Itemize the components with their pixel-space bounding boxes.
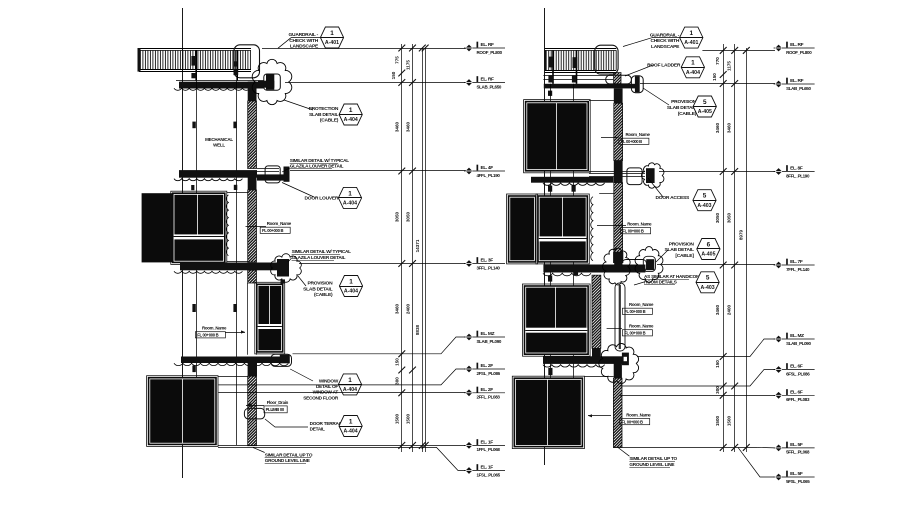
svg-text:WINDOW: WINDOW — [319, 379, 339, 384]
svg-text:1FSL_PL065: 1FSL_PL065 — [477, 472, 501, 477]
insulation scallop under S4 — [174, 363, 288, 365]
svg-text:PROVISION: PROVISION — [671, 99, 697, 105]
slab edge anchor detail in cloud — [264, 74, 281, 90]
slab S4 edge capsule — [271, 354, 292, 366]
svg-text:SLAB_PL650: SLAB_PL650 — [477, 84, 502, 89]
svg-text:Room_Name: Room_Name — [627, 221, 652, 226]
svg-text:▌ EL. 1F: ▌ EL. 1F — [477, 464, 494, 471]
level marker left y82 — [464, 82, 505, 84]
svg-text:A-405: A-405 — [698, 109, 712, 115]
svg-text:FL 00+000 B: FL 00+000 B — [622, 229, 643, 234]
svg-text:A-404: A-404 — [344, 117, 358, 123]
level line roof slab (left) — [285, 82, 466, 84]
svg-text:A-405: A-405 — [701, 252, 715, 258]
svg-text:DETAIL: DETAIL — [310, 427, 325, 432]
svg-text:3460: 3460 — [715, 304, 720, 315]
svg-text:PLUMB 00: PLUMB 00 — [266, 407, 285, 412]
mullion centerline 1 (right) — [550, 84, 552, 447]
svg-text:1500: 1500 — [715, 415, 720, 426]
wall black floor3 bottom (right) — [592, 348, 601, 356]
roof guardrail (left) — [139, 48, 251, 50]
slab S3 edge end block — [277, 259, 289, 277]
svg-text:3FFL_PL140: 3FFL_PL140 — [477, 265, 501, 270]
svg-text:ROOF_PL800: ROOF_PL800 — [477, 50, 503, 55]
svg-text:[CABLE]: [CABLE] — [675, 253, 694, 259]
hexagon callout 1 A-401 (left roof) — [320, 27, 343, 48]
svg-text:150: 150 — [715, 360, 720, 368]
revision cloud S4R — [599, 343, 639, 383]
svg-text:A-404: A-404 — [344, 289, 358, 295]
hexagon callout A-404 (left floor2) — [338, 187, 361, 208]
level line roof slab (right) — [640, 83, 775, 85]
svg-text:2400: 2400 — [727, 304, 732, 315]
svg-text:SLAB DETAIL: SLAB DETAIL — [664, 247, 693, 253]
svg-text:1FFL_PL068: 1FFL_PL068 — [477, 447, 501, 452]
level line window bottom (left) — [218, 445, 466, 447]
svg-text:8838: 8838 — [415, 324, 420, 335]
insulation scallop under S1 — [174, 88, 250, 90]
insulation scallop under S3 — [174, 271, 242, 273]
level line roof (left) — [262, 48, 466, 50]
roof slab S1R (right) — [544, 84, 639, 89]
svg-text:1: 1 — [330, 30, 334, 37]
slab S2R end block — [646, 168, 655, 183]
window W3 head anchor — [281, 279, 286, 283]
floor slab S2 (left) — [179, 170, 257, 178]
window W4R head line to wall (right) — [584, 376, 613, 378]
svg-text:▌ EL. RF: ▌ EL. RF — [786, 77, 804, 84]
window W4 head line to wall — [218, 376, 249, 378]
window W1R (right) — [524, 100, 591, 173]
svg-text:A-404: A-404 — [686, 70, 700, 76]
bottom boundary line (right) — [613, 447, 757, 449]
svg-text:SIMILAR DETAIL W/ TYPICAL: SIMILAR DETAIL W/ TYPICAL — [290, 158, 350, 163]
level marker left y369 — [464, 368, 505, 370]
svg-text:▌ EL. 2F: ▌ EL. 2F — [477, 386, 494, 393]
floor slab S3 (left) — [180, 263, 289, 271]
level marker left y470 — [464, 470, 505, 472]
svg-text:A-401: A-401 — [325, 40, 339, 46]
svg-text:CHECK WITH: CHECK WITH — [650, 38, 679, 44]
slab S2 end block — [284, 167, 290, 182]
svg-text:SLAB DETAIL: SLAB DETAIL — [309, 112, 338, 118]
slab S2R duct lines — [589, 171, 645, 173]
svg-text:▌ EL. RF: ▌ EL. RF — [786, 41, 804, 48]
hexagon callout A-403b (right floor3) — [696, 272, 719, 293]
svg-text:3460: 3460 — [395, 121, 400, 132]
svg-text:7FFL_PL140: 7FFL_PL140 — [786, 267, 810, 272]
hexagon callout A-404 (left floor3) — [339, 276, 362, 297]
svg-text:A-401: A-401 — [684, 40, 698, 46]
svg-text:▌ EL. 2F: ▌ EL. 2F — [477, 362, 494, 369]
svg-text:6FFL_PL083: 6FFL_PL083 — [786, 397, 810, 402]
mullion centerline 2 (left) — [236, 81, 238, 445]
svg-text:6: 6 — [707, 241, 711, 248]
window W2 head anchors — [191, 185, 194, 190]
svg-text:SIMILAR DETAIL UP TO: SIMILAR DETAIL UP TO — [265, 453, 313, 458]
grid line A (left section) — [182, 8, 184, 478]
svg-text:2400: 2400 — [405, 303, 410, 314]
svg-text:1: 1 — [349, 278, 353, 285]
svg-text:▌ EL. 5F: ▌ EL. 5F — [786, 470, 803, 477]
svg-text:775: 775 — [395, 56, 400, 64]
mullion anchor squares level 2 — [192, 122, 195, 129]
svg-text:SLAB DETAIL: SLAB DETAIL — [303, 286, 332, 292]
svg-text:1: 1 — [348, 377, 352, 384]
wall black below S2 (left) — [248, 174, 257, 190]
floor slab S3R (right) — [543, 265, 645, 273]
svg-text:2FFL_PL083: 2FFL_PL083 — [477, 395, 501, 400]
svg-text:5: 5 — [703, 99, 707, 106]
svg-text:▌ EL. 6F: ▌ EL. 6F — [786, 389, 803, 396]
level line floor4 b (right) — [620, 395, 775, 397]
svg-text:2FSL_PL086: 2FSL_PL086 — [477, 371, 501, 376]
insulation scallop under S2 — [174, 179, 242, 181]
level marker left y392 — [464, 392, 505, 394]
slab S4R bracket detail — [622, 353, 629, 366]
revision cloud at S1 edge — [252, 59, 292, 104]
svg-text:6FSL_PL086: 6FSL_PL086 — [786, 371, 810, 376]
window W2 framed panel (left) — [171, 191, 227, 264]
svg-text:FL 00+000 B: FL 00+000 B — [624, 309, 645, 314]
roof gutter capsule (right) — [631, 76, 643, 93]
floor drain capsule (left) — [244, 408, 264, 419]
dimension line 1 (left) — [401, 44, 403, 452]
svg-text:SLAB_PL650: SLAB_PL650 — [786, 86, 811, 91]
hexagon callout 1 (right roof) — [680, 27, 703, 48]
svg-text:▌ EL. 4F: ▌ EL. 4F — [477, 164, 494, 171]
wall outline floor3 (left) — [247, 283, 249, 355]
window W4 (left) — [147, 376, 218, 447]
level marker line window bottom (right) — [757, 446, 775, 449]
svg-text:300: 300 — [395, 377, 400, 385]
svg-text:SECOND FLOOR: SECOND FLOOR — [303, 395, 339, 400]
window W3 (left, right side) — [255, 282, 285, 354]
mullion anchor squares level 4 — [192, 366, 195, 373]
window W2R head line to wall (right) — [599, 193, 615, 195]
hexagon callout A-404 (left floor4 window) — [338, 374, 361, 395]
bottom boundary bent leader (left) — [218, 447, 466, 470]
svg-text:5: 5 — [703, 193, 707, 200]
dimension line 4 (left) — [425, 48, 427, 452]
railing post anchors (right) — [549, 57, 553, 68]
svg-text:LANDSCAPE: LANDSCAPE — [651, 44, 680, 50]
slab S3R end block — [646, 259, 654, 270]
svg-text:Room_Name: Room_Name — [626, 132, 651, 137]
svg-text:1500: 1500 — [727, 415, 732, 426]
insulation scallop under S3R — [543, 273, 591, 276]
level marker right y84 — [774, 83, 815, 85]
door track capsule floor3 (right) — [615, 283, 625, 351]
slab S3R duct capsule — [622, 260, 647, 272]
roof guardrail (right) — [545, 48, 617, 50]
svg-text:1175: 1175 — [405, 60, 410, 70]
revision cloud at S3 edge — [271, 254, 302, 283]
insulation scallop under S4R — [543, 365, 605, 367]
svg-text:FL 00+000 B: FL 00+000 B — [621, 139, 642, 144]
level marker left y263 — [464, 263, 505, 265]
level marker left y445 — [464, 444, 505, 446]
svg-text:▌ EL. 8F: ▌ EL. 8F — [786, 165, 803, 172]
svg-text:PROVISION: PROVISION — [669, 241, 695, 247]
roof deck lines (right) — [543, 75, 613, 77]
window W2 mullion scallop — [226, 195, 228, 256]
svg-text:A-404: A-404 — [343, 201, 357, 207]
svg-text:1: 1 — [349, 418, 353, 425]
svg-text:1: 1 — [348, 190, 352, 197]
guardrail posts (left) — [195, 50, 197, 81]
level marker right y369 — [774, 369, 815, 371]
svg-text:3460: 3460 — [715, 122, 720, 133]
slab S2 edge duct lines — [257, 168, 279, 170]
level line floor4 slab top bent (left) — [293, 337, 467, 354]
window W2R framed panel (right) — [536, 194, 589, 264]
svg-text:GLAZILA LOUVER DETAIL: GLAZILA LOUVER DETAIL — [290, 164, 344, 169]
level marker right y477 — [774, 476, 815, 478]
hexagon callout A-405b (right floor2) — [697, 239, 720, 260]
level marker right y265 — [774, 264, 815, 266]
slab S2R edge capsule — [627, 168, 642, 185]
svg-text:3460: 3460 — [395, 303, 400, 314]
svg-text:SLAB_PL090: SLAB_PL090 — [786, 341, 811, 346]
hexagon callout A-404 (left floor1) — [339, 104, 362, 125]
mullion centerline 2 (right) — [573, 84, 575, 447]
svg-text:▌ EL. 3F: ▌ EL. 3F — [477, 257, 494, 264]
svg-text:PROTECTION: PROTECTION — [309, 106, 339, 112]
wall parapet black (left) — [248, 82, 257, 102]
window W3R (right) — [523, 284, 591, 356]
dimension line 3 (left) — [422, 48, 424, 452]
svg-text:4FFL_PL190: 4FFL_PL190 — [477, 173, 501, 178]
level line floor3 (left) — [299, 263, 466, 265]
level line floor4 a bent (left) — [219, 369, 467, 385]
svg-text:▌ EL. 1F: ▌ EL. 1F — [477, 439, 494, 446]
floor slab S4R (right) — [543, 356, 622, 364]
wall black floor4 top (left) — [248, 357, 257, 377]
window W2 solid panel (left) — [142, 193, 172, 262]
svg-text:1175: 1175 — [727, 61, 732, 71]
svg-text:Floor_Drain: Floor_Drain — [267, 400, 289, 405]
window W2R scallop — [591, 197, 593, 261]
svg-text:▌ EL. RF: ▌ EL. RF — [477, 41, 495, 48]
svg-text:150: 150 — [712, 73, 717, 81]
wall black above S3R (right) — [614, 254, 622, 265]
svg-text:A-404: A-404 — [344, 429, 358, 435]
grid line B (right section) — [544, 8, 546, 465]
level line floor4 a bent (right) — [620, 370, 775, 387]
level line floor3 (right) — [657, 264, 775, 266]
level line floor2 (left) — [290, 170, 466, 172]
level marker right y171 — [774, 171, 815, 173]
svg-text:Room_Name: Room_Name — [202, 326, 227, 331]
svg-text:DOOR LOUVER: DOOR LOUVER — [305, 196, 339, 202]
hexagon callout A-405 (right floor1) — [693, 96, 716, 117]
window W2 sill line to wall — [227, 261, 249, 263]
revision cloud S2R edge — [641, 163, 663, 188]
svg-text:1: 1 — [349, 107, 353, 114]
svg-text:SLAB_PL090: SLAB_PL090 — [477, 339, 502, 344]
svg-text:DOOR ACCESS: DOOR ACCESS — [656, 195, 690, 201]
svg-text:3460: 3460 — [727, 122, 732, 133]
dimension line 2 (right) — [734, 44, 736, 452]
revision clouds S3R — [602, 248, 630, 285]
svg-text:GLAZILA LOUVER DETAIL: GLAZILA LOUVER DETAIL — [292, 255, 346, 260]
window W2 head line to wall — [227, 192, 249, 194]
svg-text:A-403: A-403 — [701, 285, 715, 291]
svg-text:(CABLE): (CABLE) — [678, 111, 697, 117]
svg-text:AS SIMILAR AT HANDICON: AS SIMILAR AT HANDICON — [644, 274, 700, 279]
svg-text:8FFL_PL190: 8FFL_PL190 — [786, 173, 810, 178]
svg-text:GUARDRAIL -: GUARDRAIL - — [289, 32, 319, 38]
floor slab S4 (left) — [181, 357, 280, 364]
svg-text:Room_Name: Room_Name — [267, 221, 292, 226]
svg-text:MECHANICAL: MECHANICAL — [205, 137, 233, 142]
level line roof (right) — [702, 50, 775, 52]
svg-text:A-404: A-404 — [343, 387, 357, 393]
svg-text:5FFL_PL068: 5FFL_PL068 — [786, 450, 810, 455]
dimension line 1 (right) — [723, 44, 725, 452]
mullion anchors (right) — [548, 186, 552, 192]
wall black floor1 (right) — [614, 89, 623, 104]
svg-text:150: 150 — [391, 71, 396, 79]
railing post anchors (left) — [191, 56, 196, 66]
window W1R head line to wall (right) — [589, 100, 615, 102]
level marker right y447 — [774, 447, 815, 449]
roof slab S1 (left) — [176, 80, 274, 82]
svg-text:GROUND LEVEL LINE: GROUND LEVEL LINE — [629, 462, 674, 467]
svg-text:150: 150 — [395, 358, 400, 366]
svg-text:1500: 1500 — [405, 413, 410, 424]
svg-text:SIMILAR DETAIL UP TO: SIMILAR DETAIL UP TO — [629, 456, 677, 461]
svg-text:8979: 8979 — [739, 229, 744, 240]
svg-text:▌ EL. 7F: ▌ EL. 7F — [786, 258, 803, 265]
svg-text:3460: 3460 — [405, 121, 410, 132]
svg-text:3050: 3050 — [715, 212, 720, 223]
svg-text:(CABLE): (CABLE) — [320, 118, 339, 124]
slab S4 end block — [280, 355, 290, 364]
insulation scallop under S2R — [543, 183, 605, 185]
svg-text:1500: 1500 — [395, 413, 400, 424]
svg-text:▌ EL. 6F: ▌ EL. 6F — [786, 363, 803, 370]
svg-text:3050: 3050 — [727, 212, 732, 223]
svg-text:CHECK WITH: CHECK WITH — [289, 38, 318, 44]
svg-text:WELL: WELL — [213, 142, 225, 147]
level marker right y48 — [774, 47, 815, 49]
roof parapet capsule (right) — [606, 75, 632, 84]
svg-text:Room_Name: Room_Name — [629, 324, 654, 329]
bottom bent leader (right) — [738, 447, 774, 477]
guardrail posts (right) — [552, 50, 554, 84]
slab S2 edge capsule — [265, 166, 280, 183]
svg-text:FL 00+000 B: FL 00+000 B — [624, 331, 645, 336]
level marker left y171 — [464, 170, 505, 172]
hexagon callout A-403 (right floor2) — [693, 190, 716, 211]
svg-text:GROUND LEVEL LINE: GROUND LEVEL LINE — [265, 458, 310, 463]
svg-text:SLAB DETAIL: SLAB DETAIL — [667, 105, 696, 111]
svg-text:5FSL_PL065: 5FSL_PL065 — [786, 479, 810, 484]
svg-text:▌ EL. RF: ▌ EL. RF — [477, 76, 495, 83]
svg-text:(CABLE): (CABLE) — [314, 292, 333, 298]
level marker right y395 — [774, 394, 815, 396]
svg-text:FL 00+000 B: FL 00+000 B — [197, 333, 218, 338]
svg-text:14371: 14371 — [415, 239, 420, 252]
svg-text:Room_Name: Room_Name — [626, 412, 651, 417]
wall black floor2 bottom (right) — [613, 252, 623, 263]
level line floor2 (right) — [659, 171, 775, 173]
svg-text:A-403: A-403 — [697, 203, 711, 209]
svg-text:770: 770 — [715, 57, 720, 65]
level marker left y48 — [464, 47, 505, 49]
svg-text:3050: 3050 — [405, 211, 410, 222]
dimension line 2 (left) — [412, 44, 414, 452]
svg-text:FL 00+000 B: FL 00+000 B — [622, 420, 643, 425]
svg-text:ROOM DETAILS: ROOM DETAILS — [644, 280, 677, 285]
svg-text:1: 1 — [691, 60, 695, 67]
mullion centerline 1 (left) — [196, 81, 198, 445]
level marker left y337 — [464, 336, 505, 338]
hexagon callout roof ladder (right) — [681, 57, 704, 78]
hexagon callout A-404 (left terrace door) — [339, 416, 362, 437]
level line floor4 slab bent (right) — [637, 339, 775, 357]
svg-text:300: 300 — [715, 386, 720, 394]
wall black floor4 top (right) — [614, 357, 622, 379]
svg-text:1: 1 — [690, 30, 694, 37]
svg-text:▌ EL. MZ: ▌ EL. MZ — [786, 332, 804, 339]
svg-text:▌ EL. 5F: ▌ EL. 5F — [786, 441, 803, 448]
svg-text:5: 5 — [706, 275, 710, 282]
svg-text:PROVISION: PROVISION — [307, 281, 333, 287]
mullion anchor squares level 3 — [192, 304, 195, 312]
dimension line 3 (right) — [746, 48, 748, 452]
window W4R (right) — [512, 376, 584, 448]
window W2R left panel (right) — [507, 194, 538, 264]
guardrail capsule detail (left) — [234, 45, 260, 78]
svg-text:Room_Name: Room_Name — [629, 302, 654, 307]
svg-text:ROOF_PL800: ROOF_PL800 — [786, 50, 812, 55]
guardrail capsule detail (right) — [595, 45, 618, 74]
level line floor4 b (left) — [219, 392, 467, 394]
svg-text:▌ EL. MZ: ▌ EL. MZ — [477, 330, 495, 337]
svg-text:FL 00+000 B: FL 00+000 B — [262, 228, 283, 233]
svg-text:SIMILAR DETAIL W/ TYPICAL: SIMILAR DETAIL W/ TYPICAL — [292, 249, 352, 254]
floor slab S2R (right) — [531, 177, 614, 183]
svg-text:3050: 3050 — [395, 211, 400, 222]
level marker right y339 — [774, 338, 815, 340]
wall black at S2R (right) — [614, 161, 623, 183]
